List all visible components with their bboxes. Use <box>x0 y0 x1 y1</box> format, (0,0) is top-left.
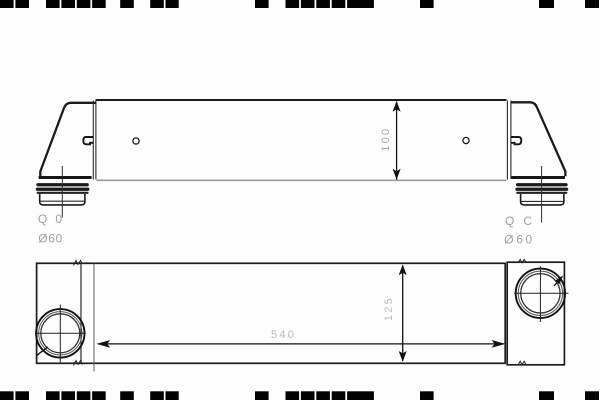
dimension line 100 (top view) <box>396 102 398 180</box>
right port vertical centerline <box>539 266 541 322</box>
svg-text:125: 125 <box>383 296 395 321</box>
left port middle ring <box>39 312 82 355</box>
right bellows rib 1 <box>516 183 568 186</box>
core front rectangle <box>37 263 506 363</box>
left tank boundary line <box>80 264 82 364</box>
right bellows rib 2 <box>515 188 568 191</box>
notch marks bottom right <box>518 361 526 365</box>
notch marks top right <box>518 259 526 263</box>
right tank outline <box>511 102 566 176</box>
dimension 540 left arrowhead <box>97 340 111 348</box>
right mounting hole <box>463 137 469 143</box>
right stub rim line <box>521 200 564 202</box>
right port outer circle <box>516 269 565 318</box>
left port centerline <box>61 166 63 218</box>
dimension extension line x94 <box>93 264 95 372</box>
left stub cylinder <box>40 194 85 205</box>
right port horizontal centerline <box>514 292 569 294</box>
dimension 125 top arrowhead <box>399 264 407 275</box>
top black bar segments <box>0 0 599 8</box>
left mounting hole <box>133 138 139 144</box>
right clip <box>511 137 521 144</box>
dimension 100 top arrowhead <box>393 101 401 112</box>
right tank core boundary double line <box>507 101 511 180</box>
left stub rim line <box>40 200 85 202</box>
core bottom edge <box>97 179 507 181</box>
svg-text:QC: QC <box>505 214 541 228</box>
svg-text:540: 540 <box>271 329 296 341</box>
left bellows rib 2 <box>36 188 90 191</box>
svg-text:100: 100 <box>380 127 392 152</box>
notch marks bottom left <box>74 361 83 366</box>
left port horizontal centerline <box>35 332 86 334</box>
svg-text:Ø60: Ø60 <box>38 232 62 246</box>
bottom black bar segments <box>0 391 599 400</box>
svg-text:Ø60: Ø60 <box>504 233 534 247</box>
left port inner circle <box>41 314 80 353</box>
right port inner circle <box>521 274 560 313</box>
core top edge <box>96 99 507 101</box>
right port centerline <box>541 166 543 223</box>
left bellows rib 1 <box>36 183 88 186</box>
left port corner diagonal <box>37 347 48 356</box>
dimension line 125 <box>402 266 404 361</box>
right port NE arrow <box>555 275 563 284</box>
right tank bottom flange <box>512 176 566 179</box>
right stub cylinder <box>521 194 564 205</box>
right bellows rib 3 <box>516 192 567 194</box>
svg-text:Q0: Q0 <box>38 212 70 226</box>
left tank outline <box>40 103 96 176</box>
dimension 100 bottom arrowhead <box>393 169 401 180</box>
right tank front rectangle <box>507 262 564 365</box>
dimension 540 right arrowhead <box>492 340 506 348</box>
left tank core boundary double line <box>93 101 96 180</box>
left port vertical centerline <box>59 305 61 364</box>
notch marks top left <box>74 261 83 266</box>
dimension 125 bottom arrowhead <box>399 351 407 362</box>
left tank bottom flange <box>39 176 92 179</box>
dimension line 540 <box>98 343 504 345</box>
left bellows rib 3 <box>37 192 89 194</box>
right port middle ring <box>518 271 562 315</box>
left port outer circle <box>36 309 84 357</box>
left clip <box>83 137 93 144</box>
